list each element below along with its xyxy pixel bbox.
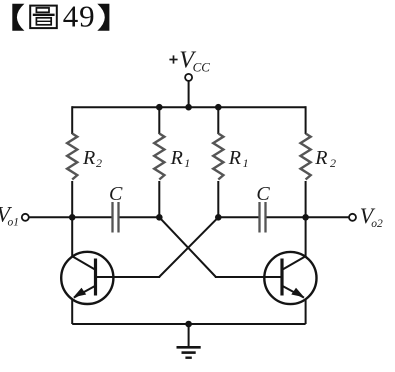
node dot Vo1 junction — [69, 214, 76, 221]
right lenticular bracket — [97, 4, 109, 31]
wire R1 left upper lead — [158, 107, 160, 134]
wire R1 right upper lead — [217, 107, 219, 134]
wire bottom rail — [72, 323, 305, 325]
node dot Vo2 junction — [302, 214, 309, 221]
node dot top Vcc — [185, 104, 192, 111]
ground — [177, 347, 201, 357]
wire base lead Q1 — [96, 276, 161, 278]
wire Vcc stub — [188, 81, 190, 107]
node dot top R1 right — [215, 104, 222, 111]
svg-text:CC: CC — [193, 59, 211, 74]
label R2 left — [82, 147, 102, 170]
label R1 right — [228, 147, 249, 170]
label R1 left — [170, 147, 191, 170]
node dot ground junction — [185, 321, 192, 328]
CJK char 圖 (drawn) — [30, 6, 57, 29]
node dot top R1 left — [156, 104, 163, 111]
svg-text:R: R — [314, 147, 327, 169]
left lenticular bracket — [12, 4, 24, 31]
svg-text:o1: o1 — [8, 217, 20, 229]
terminal Vcc — [185, 74, 192, 81]
svg-text:C: C — [256, 183, 270, 205]
wire left branch upper lead — [71, 106, 73, 134]
wire right collector lead — [305, 217, 307, 256]
terminal Vo2 — [349, 214, 356, 221]
wire cap to node B1 — [120, 216, 160, 218]
wire R1 left lower lead — [158, 181, 160, 217]
label +Vcc — [169, 47, 210, 74]
svg-text:C: C — [109, 183, 123, 205]
transistor Q2 — [264, 252, 316, 304]
svg-text:1: 1 — [184, 156, 190, 170]
label Vo1 — [0, 202, 19, 229]
svg-text:R: R — [82, 147, 95, 169]
svg-text:R: R — [170, 147, 183, 169]
node dot base node right — [215, 214, 222, 221]
svg-text:R: R — [228, 147, 241, 169]
wire node B2 to cap right — [218, 216, 258, 218]
wire Vo1 to cap — [29, 216, 112, 218]
resistor R1 left — [154, 134, 164, 180]
wire R1 right lower lead — [217, 181, 219, 217]
svg-text:2: 2 — [96, 156, 102, 170]
capacitor C left — [113, 202, 119, 233]
wire right emitter lead — [305, 299, 307, 324]
svg-text:49: 49 — [63, 0, 96, 33]
transistor Q1 — [61, 252, 113, 304]
wire cap right to Vo2 — [267, 216, 350, 218]
label Vo2 — [360, 203, 383, 230]
wire right branch lower lead — [305, 181, 307, 217]
resistor R2 left — [67, 134, 77, 180]
wire left branch lower lead — [71, 181, 73, 217]
svg-text:1: 1 — [243, 156, 249, 170]
wire right branch upper lead — [305, 106, 307, 134]
terminal Vo1 — [22, 214, 29, 221]
wire cross diagonal right-to-left — [159, 217, 218, 277]
label R2 right — [314, 147, 336, 170]
node dot base node left — [156, 214, 163, 221]
wire top rail — [72, 106, 305, 108]
resistor R1 right — [213, 134, 223, 180]
title figure label 【圖 49】 — [12, 0, 109, 33]
capacitor C right — [260, 202, 266, 233]
wire ground stub — [188, 324, 190, 347]
svg-text:2: 2 — [330, 156, 336, 170]
wire cross diagonal left-to-right — [159, 217, 216, 277]
wire base lead Q2 — [215, 276, 282, 278]
resistor R2 right — [301, 134, 311, 180]
wire left collector lead — [71, 217, 73, 256]
wire left emitter lead — [71, 299, 73, 324]
svg-text:o2: o2 — [371, 218, 383, 230]
